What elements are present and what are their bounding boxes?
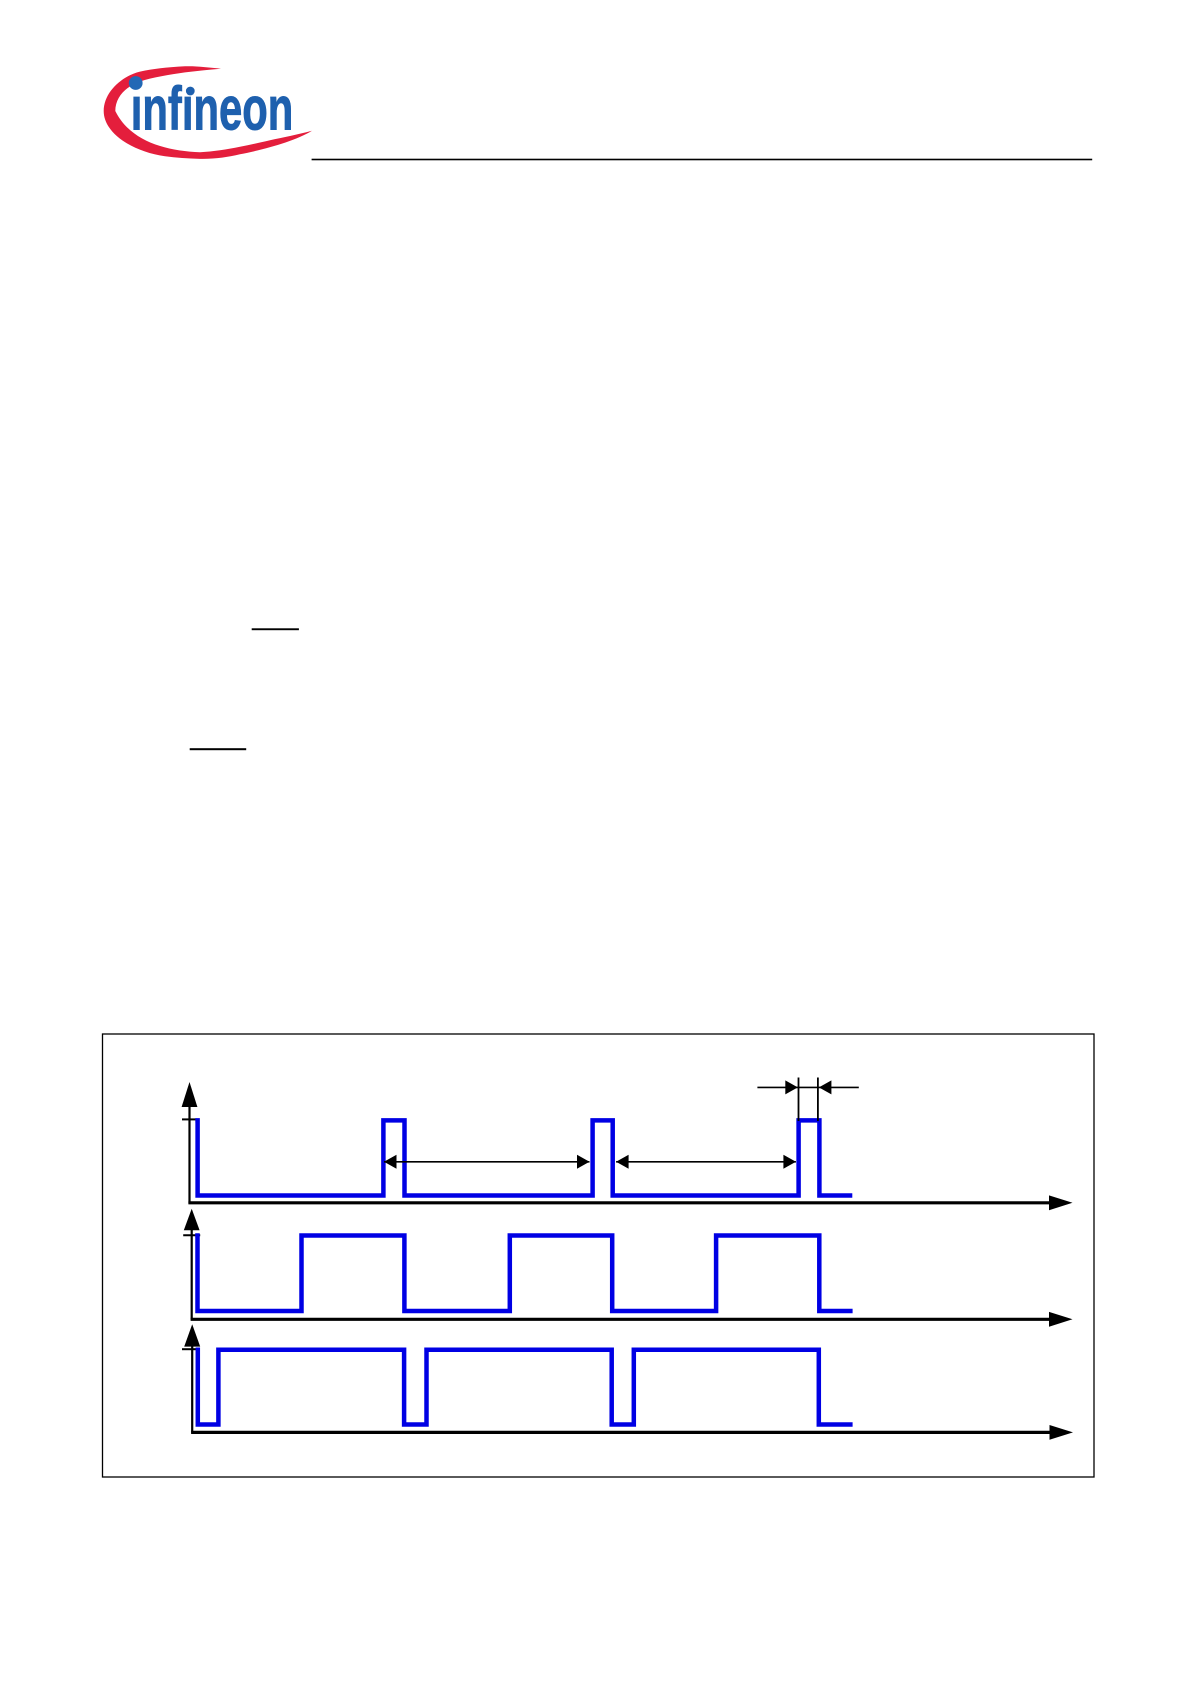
svg-text:ınfıneon: ınfıneon xyxy=(131,75,293,143)
